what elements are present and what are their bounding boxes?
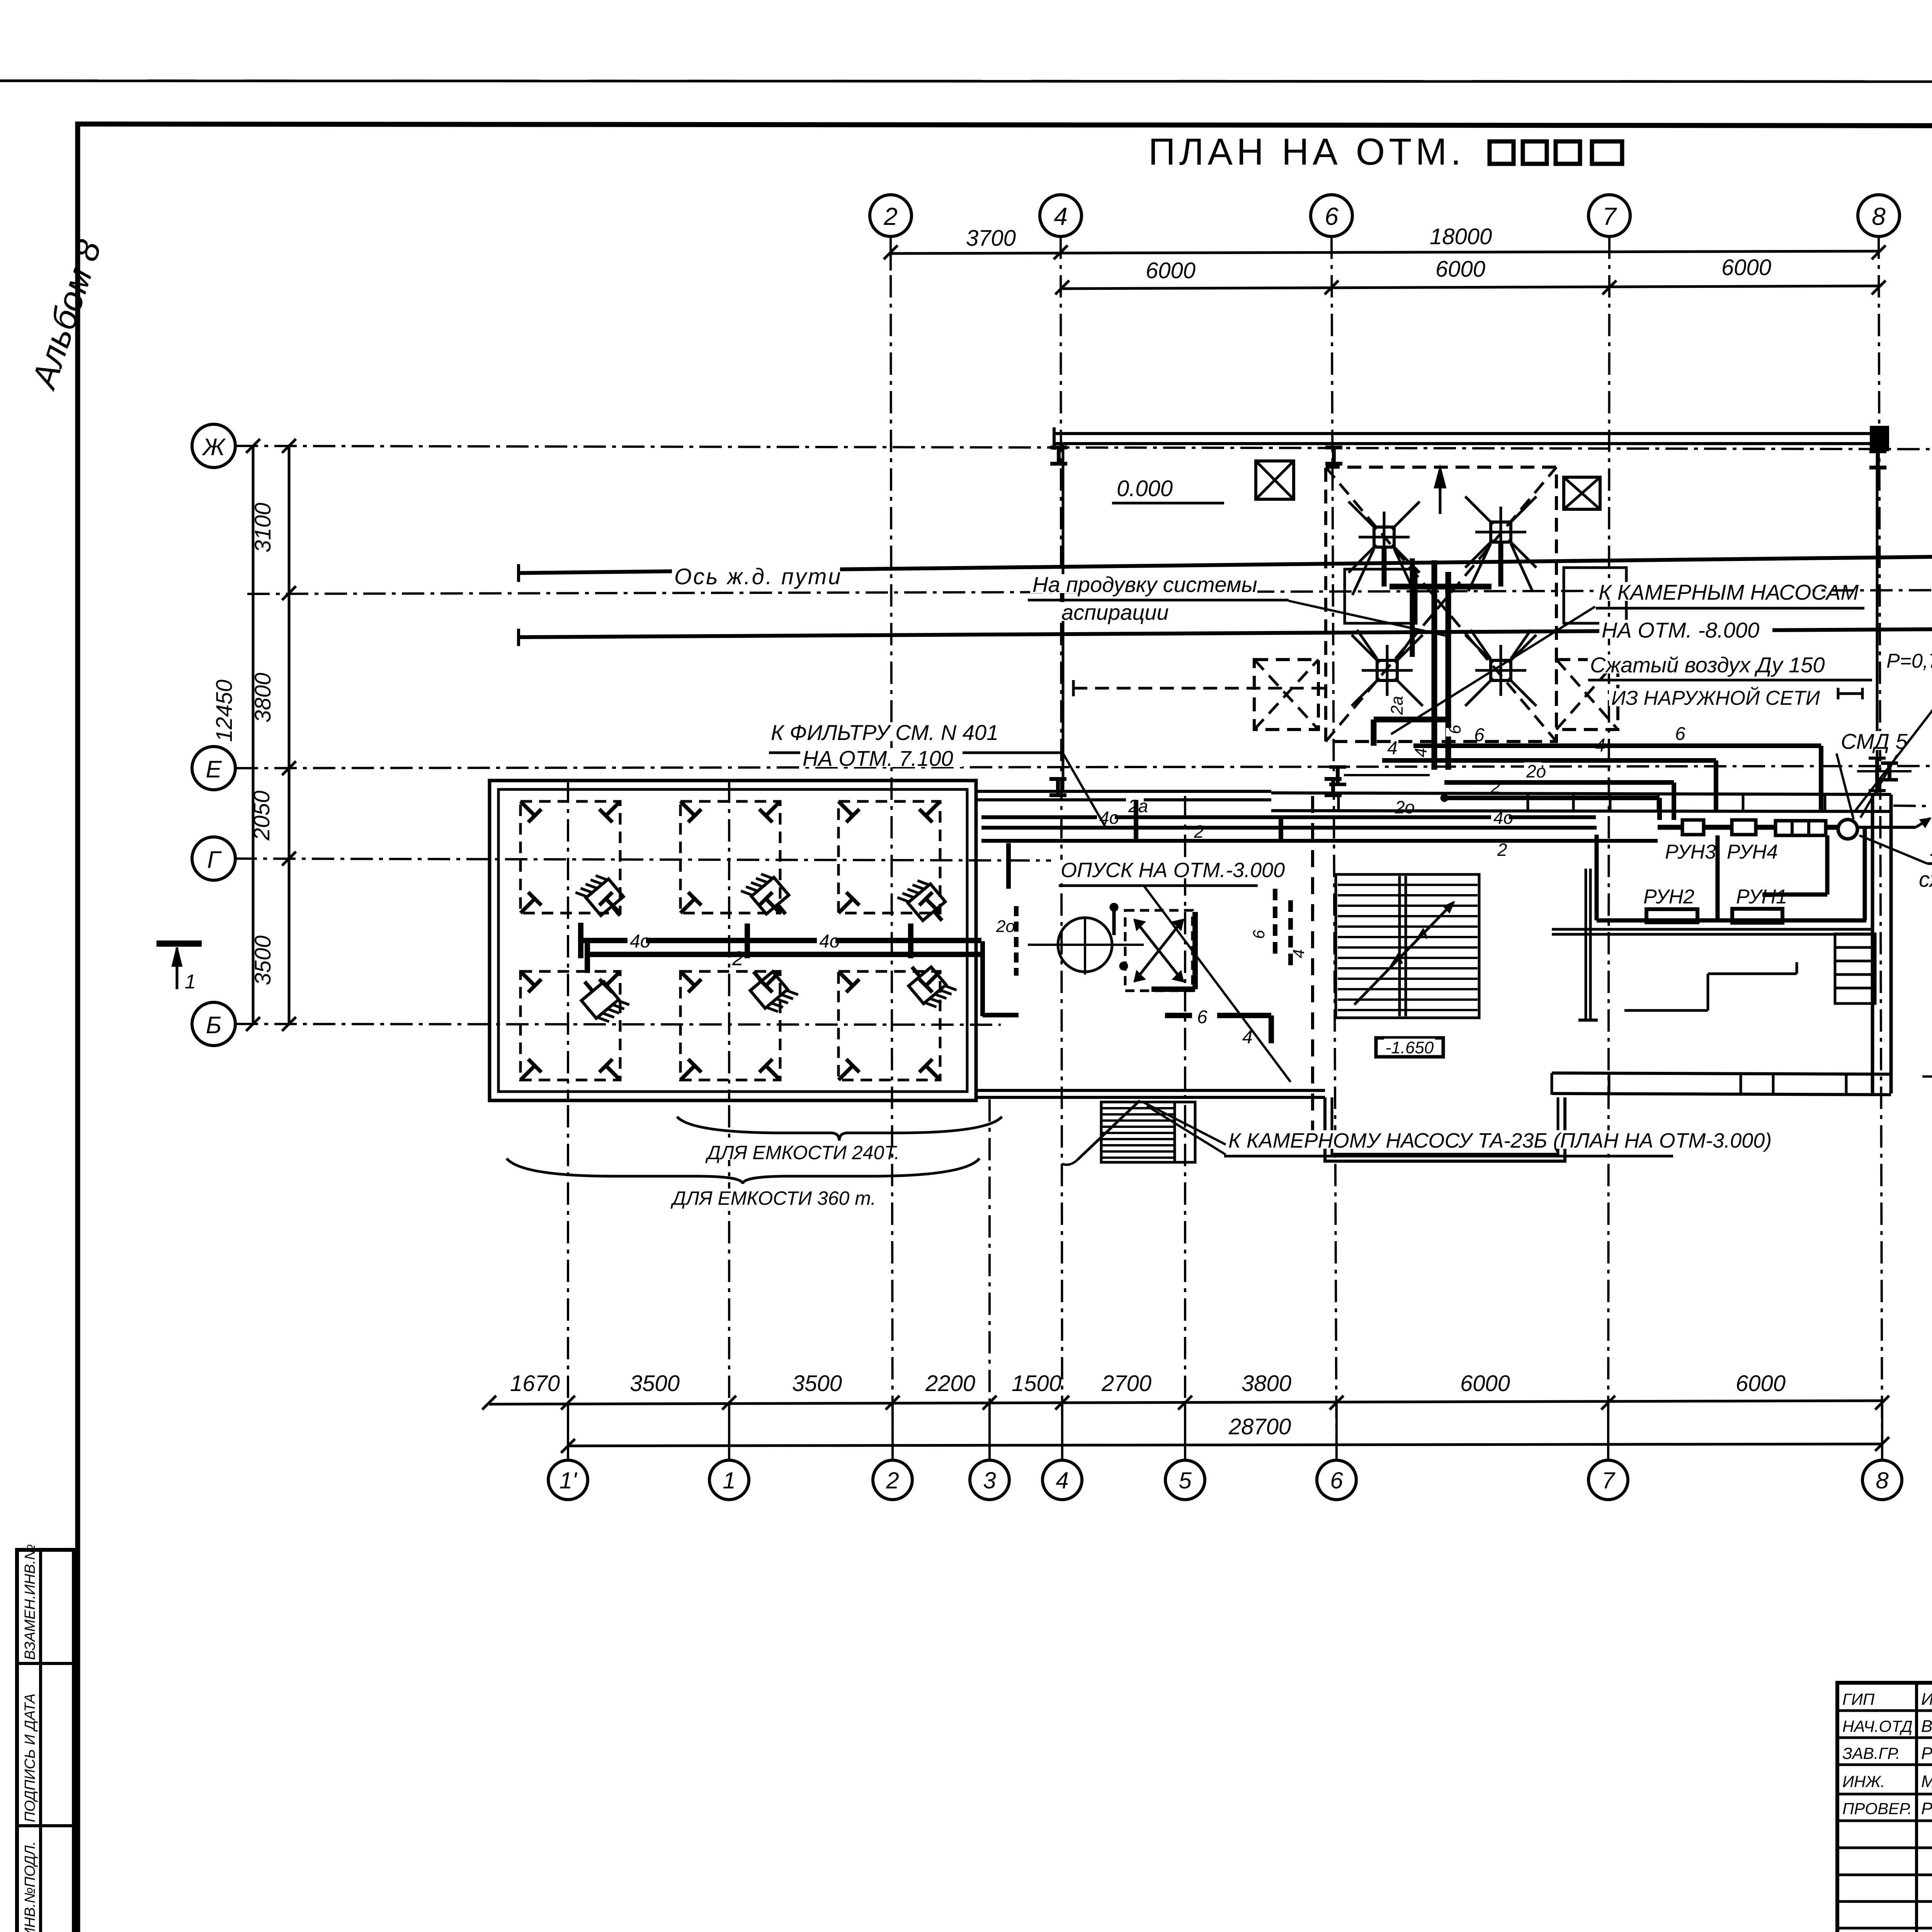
aeration fan bottom row 1	[573, 969, 629, 1026]
svg-text:2о: 2о	[996, 917, 1015, 936]
svg-text:4о: 4о	[1099, 808, 1119, 828]
aeration fan top row 3	[897, 876, 953, 933]
vertical pipe 2o dashed	[1014, 906, 1019, 976]
porch walls	[1325, 1097, 1565, 1161]
column x-square lower right	[1556, 660, 1618, 730]
bottom axis circle 3	[970, 1460, 1009, 1500]
unloader wheel SE	[1491, 660, 1511, 680]
svg-text:аспирации: аспирации	[1061, 600, 1169, 624]
svg-text:8: 8	[1872, 202, 1886, 230]
dim text 3100	[250, 503, 276, 555]
silo cell dashed square 1347x2074	[520, 801, 620, 913]
svg-text:1: 1	[185, 971, 196, 993]
left dim line outer 12450	[252, 446, 255, 1024]
signature table	[1837, 1683, 1932, 1932]
vent cap left	[1336, 767, 1340, 784]
svg-text:ПЛАН НА ОТМ.: ПЛАН НА ОТМ.	[1148, 131, 1465, 173]
axis G horizontal centerline	[235, 859, 1051, 861]
svg-text:ДЛЯ ЕМКОСТИ 240Т.: ДЛЯ ЕМКОСТИ 240Т.	[705, 1142, 900, 1163]
svg-text:6: 6	[1330, 1468, 1343, 1493]
silo cell corner columns 1347x2514	[520, 971, 535, 986]
svg-text:4: 4	[1412, 748, 1430, 757]
silo main pipe upper	[581, 938, 981, 943]
brace dlya emkosti 360	[507, 1158, 980, 1184]
left axis circle Е	[192, 747, 235, 790]
text RUN3	[1663, 842, 1703, 860]
axis 1 grid in silo	[728, 781, 730, 1100]
pipe label 4o left	[1097, 809, 1115, 824]
svg-text:7: 7	[1602, 202, 1617, 230]
silo outer wall	[490, 781, 976, 1100]
bottom axis circle 1'	[548, 1460, 588, 1500]
text RUN2	[1641, 887, 1681, 905]
silo pipe end cap a	[578, 923, 583, 958]
opusk pipe bend	[1269, 1015, 1274, 1043]
platform side vertical right	[1876, 450, 1879, 793]
wall piece L2	[980, 941, 985, 1016]
pipe 2 run	[1442, 796, 1660, 800]
svg-text:1500: 1500	[1012, 1371, 1061, 1396]
pipe run 4o	[981, 826, 1597, 830]
text RUN4	[1725, 842, 1765, 860]
valve RUN4 box	[1732, 820, 1756, 835]
svg-text:На продувку системы: На продувку системы	[1032, 572, 1257, 597]
sheet outer thin border top	[0, 81, 1932, 82]
stair treads	[1338, 884, 1478, 886]
svg-text:К КАМЕРНОМУ НАСОСУ ТА-23Б (: К КАМЕРНОМУ НАСОСУ ТА-23Б (ПЛАН НА ОТМ-3…	[1228, 1129, 1772, 1152]
svg-text:7: 7	[1602, 1468, 1616, 1493]
pipe run 2	[981, 839, 1658, 843]
svg-text:1: 1	[723, 1468, 735, 1493]
svg-text:ИНВ.№ПОДЛ.: ИНВ.№ПОДЛ.	[22, 1841, 38, 1932]
small stairs bottom	[1101, 1102, 1175, 1162]
svg-text:Г: Г	[207, 847, 222, 873]
svg-text:0.000: 0.000	[1117, 476, 1173, 501]
stair hall dashed wall	[1311, 796, 1314, 1138]
silo cell corner columns 2170x2074	[838, 801, 853, 816]
silo inner wall	[498, 789, 967, 1092]
dashed x-square with arrows	[1125, 910, 1192, 991]
left axis circle Ж	[192, 424, 235, 468]
top axis circle 2	[870, 195, 912, 236]
svg-text:28700: 28700	[1228, 1414, 1291, 1439]
axis D right segment	[1893, 806, 1932, 808]
svg-text:2: 2	[883, 202, 898, 230]
device vertical cap	[1875, 758, 1879, 791]
svg-text:РУН2: РУН2	[1643, 886, 1694, 908]
svg-text:4: 4	[1054, 202, 1068, 230]
svg-text:МАЛЮКОВА: МАЛЮКОВА	[1921, 1772, 1932, 1791]
svg-text:2: 2	[732, 947, 743, 970]
unloader pipe vertical mid	[1410, 558, 1415, 657]
platform edge double line	[1054, 432, 1873, 435]
unloader pipe vertical pair	[1432, 560, 1437, 770]
callout k filtru	[769, 722, 996, 741]
aeration fan top row 1	[575, 871, 631, 928]
level mark -1.650 box	[1376, 1038, 1443, 1057]
svg-text:2: 2	[1490, 777, 1501, 797]
svg-text:НАЧ.ОТД: НАЧ.ОТД	[1842, 1717, 1913, 1735]
axis 8 vertical centerline	[1879, 236, 1882, 1460]
pipe label 4o a	[628, 932, 646, 948]
dim text 3700	[964, 227, 1009, 247]
dim text 6000 a	[1143, 260, 1188, 279]
pipe label 4o right	[1491, 809, 1509, 824]
central north wall	[976, 790, 1271, 793]
svg-text:4о: 4о	[630, 931, 650, 952]
svg-text:ГИП: ГИП	[1842, 1690, 1875, 1708]
callout k kamernym nasosam	[1596, 582, 1813, 601]
silo cell dashed square 1347x2514	[520, 971, 620, 1080]
svg-text:НА ОТМ. 7.100: НА ОТМ. 7.100	[803, 746, 953, 770]
svg-text:6: 6	[1325, 202, 1338, 230]
unloader wheel NW	[1374, 527, 1394, 547]
svg-text:6000: 6000	[1721, 255, 1771, 280]
hatch pit right between rails	[1564, 568, 1626, 623]
svg-text:4: 4	[1289, 949, 1308, 958]
svg-text:6: 6	[1446, 724, 1464, 734]
axis 4 vertical centerline	[1061, 236, 1062, 1460]
left attribute strip table	[17, 1550, 74, 1932]
svg-text:2200: 2200	[925, 1371, 975, 1396]
south wall central block	[976, 1089, 1325, 1092]
right block top wall band	[1271, 793, 1891, 794]
column x-square upper left	[1256, 461, 1294, 499]
unloader wheel NE	[1491, 522, 1511, 542]
svg-text:6000: 6000	[1435, 257, 1485, 282]
right block east wall	[1871, 794, 1874, 1094]
left axis circle Г	[192, 837, 235, 880]
rail upper	[519, 556, 1932, 573]
svg-text:ЗАВ.ГР.: ЗАВ.ГР.	[1842, 1744, 1900, 1762]
svg-text:6: 6	[1250, 930, 1268, 939]
silo pipe tee 1	[745, 923, 750, 958]
svg-text:2о: 2о	[1395, 797, 1415, 817]
callout szhatyi vozdukh	[1588, 655, 1815, 673]
rail centerline	[247, 590, 1932, 594]
svg-text:ПОДПИСЬ И ДАТА: ПОДПИСЬ И ДАТА	[22, 1694, 38, 1822]
svg-text:Е: Е	[206, 756, 222, 783]
axis E horizontal centerline	[236, 766, 1932, 768]
left axis circle Б	[192, 1002, 235, 1046]
svg-text:РУН1: РУН1	[1736, 886, 1787, 908]
column I mark mid a	[1049, 777, 1066, 781]
svg-text:4: 4	[1056, 1468, 1068, 1493]
svg-text:2а: 2а	[1388, 696, 1406, 715]
svg-text:Сжатый воздух Ду 150: Сжатый воздух Ду 150	[1590, 653, 1825, 677]
pipe label 2o right	[1393, 798, 1410, 814]
opusk pipe 6	[1165, 1013, 1192, 1018]
svg-text:ПРОВЕР.: ПРОВЕР.	[1842, 1799, 1912, 1818]
svg-text:РЕЗИНСКИХ: РЕЗИНСКИХ	[1921, 1799, 1932, 1818]
text os zh d puti	[672, 566, 840, 585]
callout ustroystva osushki	[1928, 838, 1932, 857]
svg-text:РЕЗИНСКИХ: РЕЗИНСКИХ	[1921, 1744, 1932, 1763]
room walls thick	[1595, 835, 1599, 920]
dim text 28700	[1226, 1416, 1282, 1435]
railcar diagonal X	[1326, 467, 1556, 742]
bottom axis circle 2	[873, 1460, 912, 1500]
dim text 6000 c	[1719, 257, 1764, 276]
callout opusk	[1058, 860, 1277, 878]
silo cell dashed square 2170x2074	[838, 801, 940, 913]
dim text 3800	[250, 673, 276, 725]
misc pipes	[1708, 973, 1797, 975]
unloader pipe elbow	[1374, 717, 1447, 723]
dim text 6000 b	[1433, 258, 1478, 278]
axis 3 lower centerline	[988, 1099, 991, 1403]
svg-text:Р=0,7МПа: Р=0,7МПа	[1886, 650, 1932, 672]
silo pipe tee 2	[908, 923, 913, 958]
aeration fan bottom row 2	[742, 959, 798, 1016]
aeration fan bottom row 3	[901, 954, 957, 1012]
pipe label 4o b	[817, 932, 835, 948]
SMD device circle	[1838, 820, 1857, 839]
stairwell box	[1336, 874, 1479, 1018]
label 2o vertical	[994, 917, 1011, 932]
svg-text:К ФИЛЬТРУ СМ. N 401: К ФИЛЬТРУ СМ. N 401	[771, 720, 998, 745]
air line to arrow	[1857, 826, 1916, 829]
bottom axis circle 1	[709, 1460, 749, 1500]
dim text 3500 left	[250, 935, 276, 988]
axis B horizontal centerline	[236, 1024, 1001, 1025]
callout k kamernomu nasosu	[1226, 1130, 1748, 1149]
opusk risers dashed thick	[1273, 889, 1277, 954]
svg-text:2: 2	[1194, 821, 1204, 842]
stair stringer	[1398, 876, 1401, 1016]
svg-text:ВОЛКОВ: ВОЛКОВ	[1921, 1717, 1932, 1736]
axis 1' grid in silo	[567, 781, 569, 1100]
column I mark top b	[1325, 446, 1342, 449]
svg-text:РУН4: РУН4	[1727, 841, 1778, 863]
stair arrow diagonal	[1354, 902, 1454, 1005]
pipe 4 run	[1382, 758, 1716, 763]
pipe riser b	[1279, 817, 1283, 842]
leader opusk diagonal	[1144, 886, 1291, 1082]
svg-text:ОПУСК НА ОТМ.-3.000: ОПУСК НА ОТМ.-3.000	[1061, 859, 1285, 882]
top axis circle 4	[1040, 195, 1082, 236]
vertical pipe labels	[1388, 696, 1406, 717]
valve RUN3 box	[1682, 820, 1704, 835]
bottom axis circle 4	[1043, 1460, 1082, 1500]
bottom dim chain line	[489, 1401, 1882, 1404]
triple filter box	[1776, 821, 1826, 835]
pipe riser a	[1134, 800, 1138, 842]
wheel stub pipes	[1382, 547, 1387, 587]
level mark 0.000	[1114, 478, 1170, 497]
pump dots	[1110, 903, 1118, 912]
svg-text:2: 2	[1497, 840, 1507, 860]
pipe run 2a	[981, 815, 1596, 819]
main title stencil zeros	[1490, 141, 1514, 164]
bottom axis stubs	[567, 1403, 569, 1460]
svg-text:2о: 2о	[1526, 761, 1546, 781]
svg-text:8: 8	[1876, 1468, 1889, 1493]
column x-square upper right	[1564, 477, 1600, 509]
top dim line 3700/18000	[891, 251, 1879, 253]
top axis circle 7	[1588, 195, 1630, 236]
heater RUN2	[1646, 909, 1697, 922]
top dim line 6000x3	[1062, 286, 1879, 289]
dim text 2050	[249, 791, 274, 843]
label 2o a	[1524, 762, 1542, 778]
column I mark top c	[1869, 449, 1886, 453]
smd pipe loop	[1825, 835, 1830, 895]
svg-text:ИНЖ.: ИНЖ.	[1842, 1772, 1885, 1791]
pump circle	[1058, 918, 1112, 972]
railcar top arrow	[1439, 471, 1442, 514]
pipe 2o run	[1444, 780, 1674, 785]
dim text 18000	[1427, 226, 1483, 245]
svg-text:5: 5	[1179, 1468, 1192, 1493]
section mark 1 left	[156, 940, 202, 947]
south wall band right block	[1552, 1073, 1891, 1074]
silo cell dashed square 1761x2074	[680, 801, 780, 913]
bottom axis circle 6	[1317, 1460, 1356, 1500]
silo pipe end cap b	[585, 938, 590, 973]
callout na produvku	[1030, 574, 1257, 593]
svg-text:12450: 12450	[212, 680, 237, 742]
silo main pipe lower	[587, 952, 981, 957]
svg-text:6: 6	[1675, 724, 1685, 744]
axis 5 lower centerline	[1184, 796, 1186, 1403]
svg-text:1670: 1670	[510, 1371, 560, 1396]
text RUN1	[1734, 887, 1774, 905]
bottom overall dim line 28700	[568, 1444, 1882, 1446]
column I mark mid b	[1325, 777, 1342, 781]
bottom axis circle 8	[1862, 1460, 1902, 1500]
vent cap right	[1888, 763, 1891, 780]
silo cell corner columns 2170x2514	[838, 971, 853, 986]
floor line	[1552, 928, 1872, 931]
platform right end block	[1871, 427, 1888, 450]
pipe 6 run	[1413, 743, 1821, 748]
silo cell corner columns 1761x2514	[680, 971, 695, 986]
pipe label 2a left	[1126, 797, 1144, 813]
silo cell corner columns 1761x2074	[680, 801, 695, 816]
svg-text:-1.650: -1.650	[1386, 1038, 1434, 1057]
svg-text:3500: 3500	[630, 1371, 680, 1396]
text SMD 5	[1838, 731, 1893, 750]
bottom axis circle 7	[1588, 1460, 1628, 1500]
svg-text:4: 4	[1595, 735, 1605, 756]
thick pipe right of square	[1192, 912, 1198, 989]
leader P07 to SMD	[1855, 681, 1932, 811]
svg-text:ДЛЯ ЕМКОСТИ 360 т.: ДЛЯ ЕМКОСТИ 360 т.	[670, 1187, 876, 1209]
svg-text:СМД 5: СМД 5	[1841, 729, 1908, 753]
column I mark top a	[1050, 446, 1067, 449]
railcar dashed outline	[1326, 467, 1556, 742]
wheel cones	[1352, 549, 1374, 595]
svg-text:Ж: Ж	[202, 434, 226, 461]
svg-text:3800: 3800	[1242, 1371, 1291, 1396]
svg-text:3700: 3700	[966, 226, 1016, 251]
svg-text:6000: 6000	[1146, 258, 1196, 283]
wall piece L1	[1006, 843, 1011, 889]
axis 2 vertical centerline	[891, 236, 893, 1460]
axis 7 vertical centerline	[1608, 236, 1609, 1460]
long dashed line to pit	[1073, 687, 1324, 690]
svg-text:1': 1'	[560, 1468, 578, 1493]
dim text 12450	[212, 680, 237, 744]
svg-text:ИЗ НАРУЖНОЙ СЕТИ: ИЗ НАРУЖНОЙ СЕТИ	[1611, 687, 1820, 709]
svg-text:4: 4	[1387, 738, 1398, 759]
axis 1' lower centerline	[567, 1105, 569, 1403]
top axis circle 6	[1311, 195, 1352, 236]
pipe stub symbol	[1838, 692, 1862, 695]
svg-text:сжатого воздуха: сжатого воздуха	[1919, 867, 1932, 891]
svg-text:2: 2	[886, 1468, 899, 1493]
svg-text:6: 6	[1474, 725, 1485, 745]
axis A right segment	[1922, 1075, 1932, 1078]
right hatch stairs	[1835, 934, 1875, 1003]
svg-text:18000: 18000	[1430, 224, 1492, 249]
axis Zh horizontal centerline	[236, 446, 1932, 449]
axis 6 vertical centerline	[1332, 236, 1337, 1460]
svg-text:6: 6	[1197, 1007, 1207, 1027]
svg-text:3: 3	[983, 1468, 996, 1493]
svg-text:ИВАНОВА: ИВАНОВА	[1921, 1690, 1932, 1709]
silo cell corner columns 1347x2074	[520, 801, 535, 816]
svg-text:Ось ж.д. пути: Ось ж.д. пути	[674, 564, 842, 589]
heater RUN1	[1732, 909, 1782, 923]
svg-text:Устройства осушки: Устройства осушки	[1930, 836, 1932, 861]
silo cell dashed square 1761x2514	[680, 971, 780, 1080]
small stairs arrow	[1078, 1100, 1140, 1159]
left dim line inner chain	[288, 446, 291, 1024]
air main line	[1658, 825, 1682, 830]
silo cell dashed square 2170x2514	[838, 971, 940, 1080]
unloader wheel SW	[1377, 660, 1397, 680]
svg-text:Б: Б	[206, 1012, 221, 1039]
platform side vertical left	[1062, 444, 1065, 791]
svg-text:ВЗАМЕН.ИНВ.№: ВЗАМЕН.ИНВ.№	[22, 1544, 38, 1660]
svg-text:РУН3: РУН3	[1665, 841, 1716, 863]
bottom axis circle 5	[1165, 1460, 1205, 1500]
posts	[1585, 869, 1587, 1020]
unloader pipe horizontal	[1389, 584, 1492, 590]
brace dlya emkosti 240	[677, 1117, 1002, 1141]
svg-text:3500: 3500	[792, 1371, 842, 1396]
aeration fan top row 2	[741, 869, 797, 926]
top axis circle 8	[1858, 195, 1900, 236]
hatch pit left between rails	[1345, 569, 1416, 623]
axis 1 lower centerline	[728, 1105, 730, 1403]
svg-text:2700: 2700	[1101, 1371, 1151, 1396]
svg-text:4о: 4о	[819, 931, 840, 952]
svg-text:К КАМЕРНЫМ НАСОСАМ: К КАМЕРНЫМ НАСОСАМ	[1599, 580, 1859, 604]
svg-text:НА ОТМ. -8.000: НА ОТМ. -8.000	[1602, 618, 1759, 642]
column x-square lower left	[1254, 660, 1318, 730]
svg-text:6000: 6000	[1460, 1371, 1510, 1396]
svg-text:6000: 6000	[1736, 1371, 1786, 1396]
rail lower	[519, 629, 1932, 637]
